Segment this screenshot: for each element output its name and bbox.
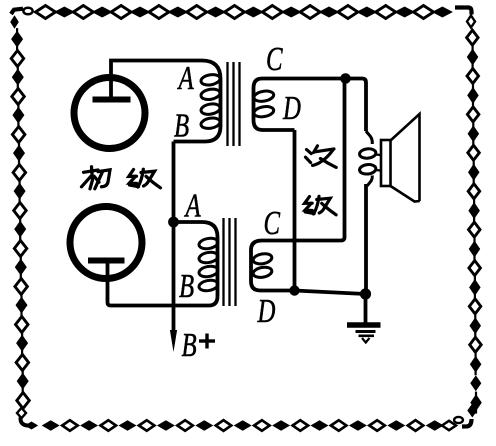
node: B+ junction (T1-B / T2-A) [168, 217, 179, 228]
ground symbol [347, 294, 381, 343]
transformer T2 secondary winding [251, 241, 295, 291]
B+ arrow [170, 330, 177, 352]
wire: return bus to ground junction [295, 291, 366, 295]
wire: V1 plate to T1 primary top [111, 61, 202, 100]
speaker LS cone [391, 114, 420, 202]
svg-text:C: C [266, 40, 283, 78]
svg-text:A: A [177, 59, 194, 97]
speaker LS frame [381, 140, 391, 186]
node: D junction on return bus [289, 285, 299, 295]
node: ground junction [360, 288, 371, 299]
transformer T1 core [228, 62, 240, 146]
svg-text:D: D [282, 89, 301, 127]
svg-text:C: C [264, 204, 281, 242]
speaker LS voice coil [359, 131, 380, 186]
wire: T1 secondary D down to return bus [293, 130, 297, 291]
wire: speaker bottom lead to ground bus [364, 184, 368, 294]
node: output junction (C terminals + speaker top) [340, 73, 351, 84]
transformer T2 primary winding [176, 222, 219, 306]
label 初级 (primary) [82, 167, 161, 189]
tube V1 (upper triode) [74, 78, 145, 149]
label B+ [182, 326, 216, 364]
wire: central B+ rail [172, 142, 176, 332]
transformer T2 core [224, 218, 236, 306]
wire: junction to speaker voice coil [346, 79, 367, 132]
tube V2 (lower triode) [70, 207, 142, 279]
svg-text:A: A [184, 187, 201, 225]
svg-text:B: B [182, 326, 197, 364]
transformer T1 primary winding [174, 61, 221, 142]
label 次级 (secondary) [305, 146, 337, 215]
transformer T1 secondary winding [253, 79, 345, 131]
svg-text:B: B [174, 107, 189, 145]
svg-text:B: B [179, 267, 194, 305]
svg-text:D: D [257, 292, 276, 330]
wire: V2 plate to T2 primary bottom (B) [108, 260, 210, 306]
wire: junction down to T2 secondary top (C) [262, 79, 345, 241]
